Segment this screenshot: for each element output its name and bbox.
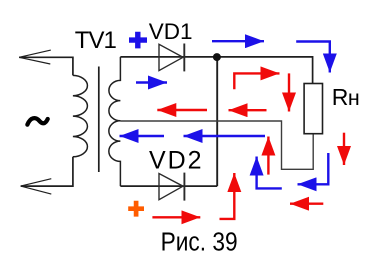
red left arrow in secondary [157, 109, 207, 111]
blue current arrow top wire [212, 40, 264, 42]
wire secondary bottom through VD2 [120, 185, 217, 187]
svg-text:VD2: VD2 [149, 147, 202, 175]
red down arrow far right [343, 133, 345, 165]
secondary winding upper half [109, 57, 121, 121]
red left arrow bottom right [290, 202, 323, 204]
wire primary top [19, 57, 73, 75]
AC source symbol ~ [27, 118, 47, 124]
wire center tap to load [120, 121, 313, 169]
secondary winding lower half [109, 121, 121, 186]
wire VD2 cathode up to junction [216, 57, 218, 186]
resistor Rn body [304, 84, 322, 134]
transformer core [98, 67, 100, 173]
wire secondary top to VD1 and to resistor corner [120, 57, 312, 84]
wire primary bottom [21, 157, 73, 186]
diode VD2 [159, 173, 184, 201]
red left arrow mid [229, 109, 267, 111]
input terminal top (chevron) [19, 50, 51, 64]
blue current arrow in secondary top [136, 81, 167, 83]
plus sign at VD1 (blue) [129, 32, 147, 49]
red down arrow near resistor [288, 73, 290, 111]
svg-text:VD1: VD1 [149, 19, 193, 44]
red bent arrow (up then right) [234, 73, 279, 89]
node junction dot [213, 53, 221, 61]
plus sign at VD2 (orange) [128, 201, 144, 217]
blue left arrow mid 2 [184, 135, 266, 137]
red right arrow bottom [152, 216, 200, 218]
svg-text:Рис. 39: Рис. 39 [161, 229, 238, 257]
input terminal bottom (chevron) [21, 179, 52, 194]
red tall up arrow [267, 137, 269, 175]
blue bent arrow bottom right (left) [298, 153, 329, 184]
blue left arrow mid 1 [120, 135, 165, 137]
red bent arrow (right then up) [220, 173, 235, 219]
diode VD1 [159, 44, 184, 72]
svg-text:TV1: TV1 [75, 27, 117, 54]
blue bent arrow top right [296, 42, 330, 73]
primary winding of TV1 [73, 75, 88, 156]
blue bent arrow bottom (up) [257, 157, 282, 189]
svg-text:Rн: Rн [332, 84, 360, 110]
